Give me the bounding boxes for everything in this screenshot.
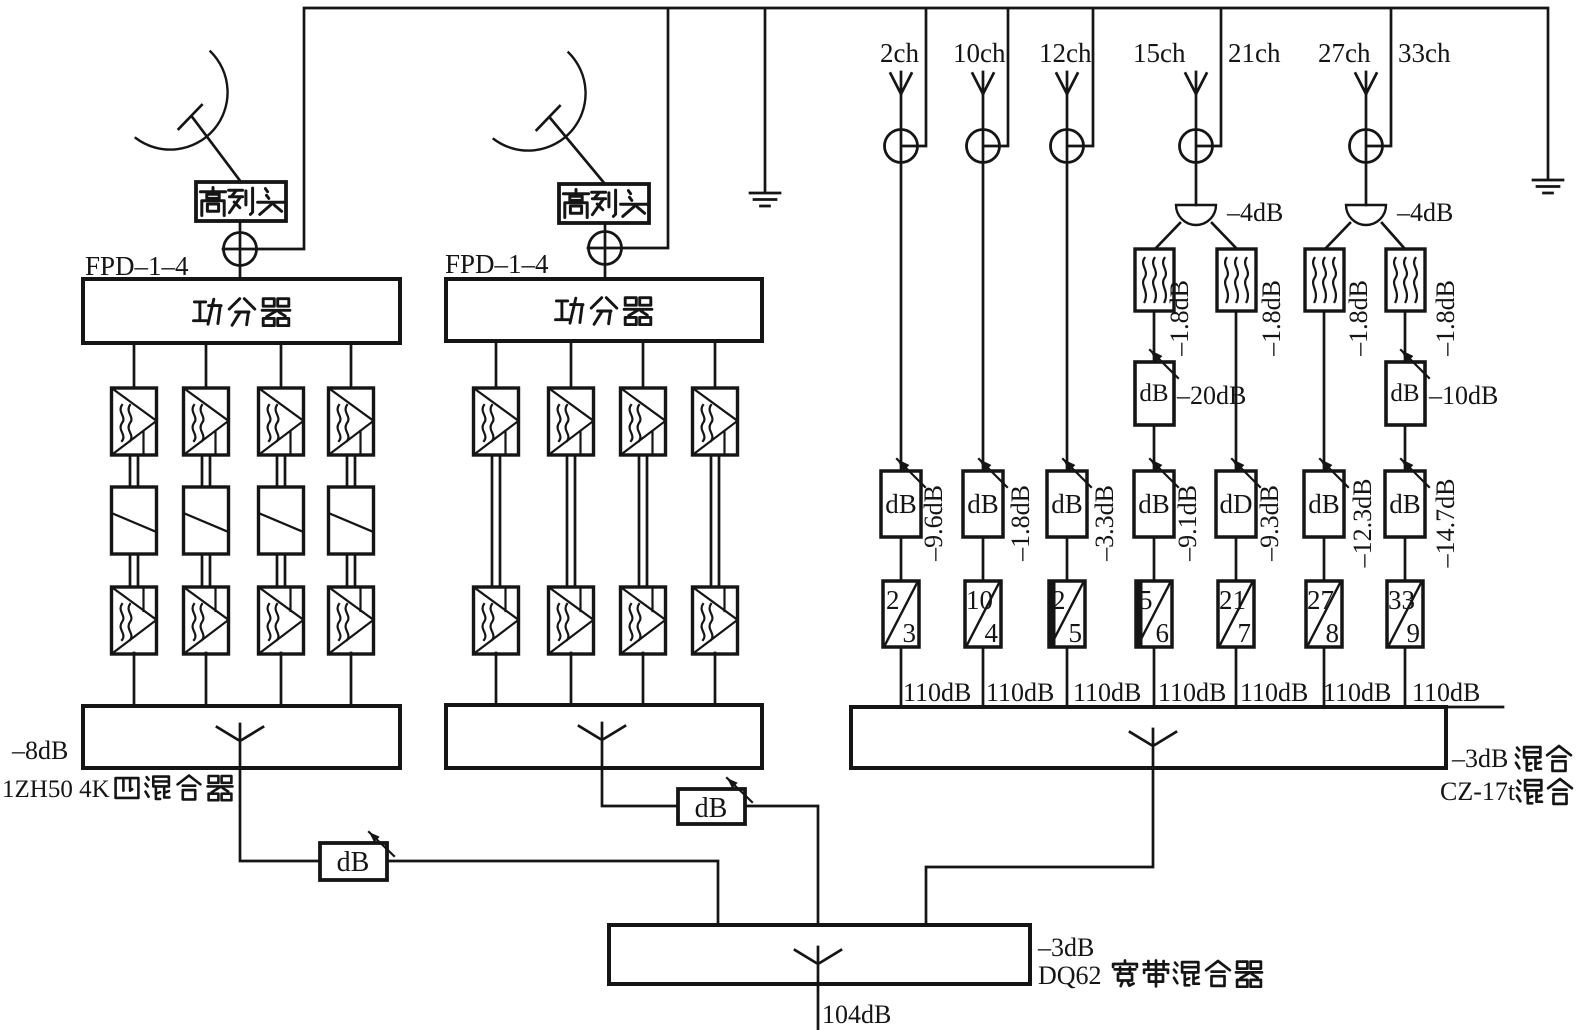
svg-text:104dB: 104dB — [822, 1000, 891, 1029]
svg-text:–14.7dB: –14.7dB — [1431, 479, 1460, 569]
svg-text:dB: dB — [1389, 489, 1421, 519]
svg-text:dB: dB — [1308, 489, 1340, 519]
svg-text:12ch: 12ch — [1039, 38, 1092, 68]
svg-text:10: 10 — [966, 585, 993, 615]
svg-text:–4dB: –4dB — [1226, 198, 1283, 227]
svg-text:–3dB: –3dB — [1451, 744, 1508, 773]
svg-text:–9.3dB: –9.3dB — [1255, 485, 1284, 562]
svg-text:110dB: 110dB — [1412, 678, 1480, 707]
svg-text:FPD–1–4: FPD–1–4 — [445, 249, 549, 279]
svg-text:33ch: 33ch — [1398, 38, 1451, 68]
svg-text:dB: dB — [1051, 489, 1083, 519]
svg-text:–1.8dB: –1.8dB — [1344, 280, 1373, 357]
svg-text:dB: dB — [967, 489, 999, 519]
svg-text:–1.8dB: –1.8dB — [1165, 280, 1194, 357]
svg-text:110dB: 110dB — [1240, 678, 1308, 707]
svg-text:dB: dB — [695, 793, 728, 824]
svg-text:CZ-17t: CZ-17t — [1440, 777, 1516, 806]
svg-text:110dB: 110dB — [1323, 678, 1391, 707]
svg-text:–20dB: –20dB — [1176, 381, 1246, 410]
svg-text:5: 5 — [1139, 585, 1153, 615]
svg-text:dB: dB — [885, 489, 917, 519]
svg-text:21: 21 — [1219, 585, 1246, 615]
svg-text:110dB: 110dB — [1073, 678, 1141, 707]
svg-text:–4dB: –4dB — [1396, 198, 1453, 227]
svg-text:8: 8 — [1326, 618, 1340, 648]
svg-text:FPD–1–4: FPD–1–4 — [85, 251, 189, 281]
svg-text:dB: dB — [1139, 380, 1168, 407]
svg-text:6: 6 — [1156, 618, 1170, 648]
svg-text:–3dB: –3dB — [1037, 933, 1094, 962]
svg-text:1ZH50 4K: 1ZH50 4K — [2, 776, 110, 803]
svg-text:–12.3dB: –12.3dB — [1348, 479, 1377, 569]
svg-text:5: 5 — [1069, 618, 1083, 648]
svg-text:–10dB: –10dB — [1428, 381, 1498, 410]
svg-text:7: 7 — [1238, 618, 1252, 648]
svg-text:dB: dB — [1390, 380, 1419, 407]
svg-text:–3.3dB: –3.3dB — [1090, 485, 1119, 562]
svg-text:33: 33 — [1388, 585, 1415, 615]
svg-text:21ch: 21ch — [1228, 38, 1281, 68]
svg-text:15ch: 15ch — [1133, 38, 1186, 68]
svg-text:3: 3 — [903, 618, 917, 648]
svg-text:9: 9 — [1407, 618, 1421, 648]
svg-text:–9.1dB: –9.1dB — [1173, 485, 1202, 562]
svg-text:DQ62: DQ62 — [1038, 961, 1102, 990]
svg-text:27ch: 27ch — [1318, 38, 1371, 68]
svg-text:–8dB: –8dB — [11, 736, 68, 765]
svg-text:dB: dB — [337, 847, 370, 878]
svg-text:27: 27 — [1307, 585, 1334, 615]
svg-text:110dB: 110dB — [986, 678, 1054, 707]
svg-text:dB: dB — [1138, 489, 1170, 519]
svg-text:–9.6dB: –9.6dB — [919, 485, 948, 562]
svg-text:110dB: 110dB — [903, 678, 971, 707]
svg-text:–1.8dB: –1.8dB — [1006, 485, 1035, 562]
svg-text:dD: dD — [1220, 489, 1253, 519]
svg-text:4: 4 — [985, 618, 999, 648]
svg-text:2ch: 2ch — [880, 38, 919, 68]
svg-text:2: 2 — [1052, 585, 1066, 615]
svg-text:–1.8dB: –1.8dB — [1257, 280, 1286, 357]
svg-text:10ch: 10ch — [953, 38, 1006, 68]
svg-text:110dB: 110dB — [1158, 678, 1226, 707]
svg-text:–1.8dB: –1.8dB — [1431, 280, 1460, 357]
svg-text:2: 2 — [886, 585, 900, 615]
